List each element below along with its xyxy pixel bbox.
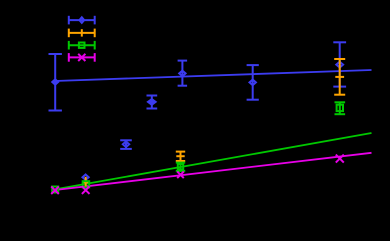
legend magenta sample <box>69 53 95 62</box>
magenta point 2 X <box>82 186 90 194</box>
blue series <box>49 42 347 180</box>
orange point 3 plus <box>335 76 344 78</box>
magenta point 1 X <box>51 186 59 194</box>
blue point 7 errorbar <box>333 42 346 86</box>
blue point 1 diamond <box>52 79 59 85</box>
orange point 1 errorbar <box>85 177 87 187</box>
magenta point 3 X <box>177 172 184 179</box>
blue point 4 diamond <box>147 99 156 106</box>
blue point 3 diamond <box>123 142 129 148</box>
magenta fit line <box>55 153 372 190</box>
legend blue sample <box>69 16 95 25</box>
blue point 5 errorbar <box>178 61 188 86</box>
orange point 2 errorbar <box>176 152 185 161</box>
magenta series <box>51 155 344 194</box>
green point 4 errorbar <box>335 102 346 114</box>
orange point 3 errorbar <box>334 59 345 95</box>
blue point 3 errorbar <box>120 140 132 149</box>
green point 1 square <box>52 187 58 193</box>
blue point 1 errorbar <box>49 54 62 111</box>
orange point 2 plus <box>176 152 184 160</box>
blue point 7 diamond <box>336 62 343 68</box>
blue fit line <box>55 70 372 81</box>
magenta point 4 X <box>336 155 344 163</box>
legend <box>69 16 95 62</box>
blue point 2 diamond <box>83 175 89 180</box>
blue point 5 diamond <box>179 71 185 77</box>
orange series <box>83 59 345 187</box>
legend orange sample <box>69 29 95 38</box>
blue point 4 errorbar <box>147 96 158 109</box>
green series <box>52 102 345 192</box>
green point 3 errorbar <box>176 163 185 171</box>
green point 2 square <box>83 181 90 187</box>
green point 4 square <box>337 105 343 111</box>
blue point 6 diamond <box>250 80 256 86</box>
green point 3 square <box>178 164 183 169</box>
green fit line <box>55 133 372 189</box>
legend green sample <box>69 41 95 50</box>
orange point 1 plus <box>83 181 89 183</box>
blue point 6 errorbar <box>247 65 259 100</box>
